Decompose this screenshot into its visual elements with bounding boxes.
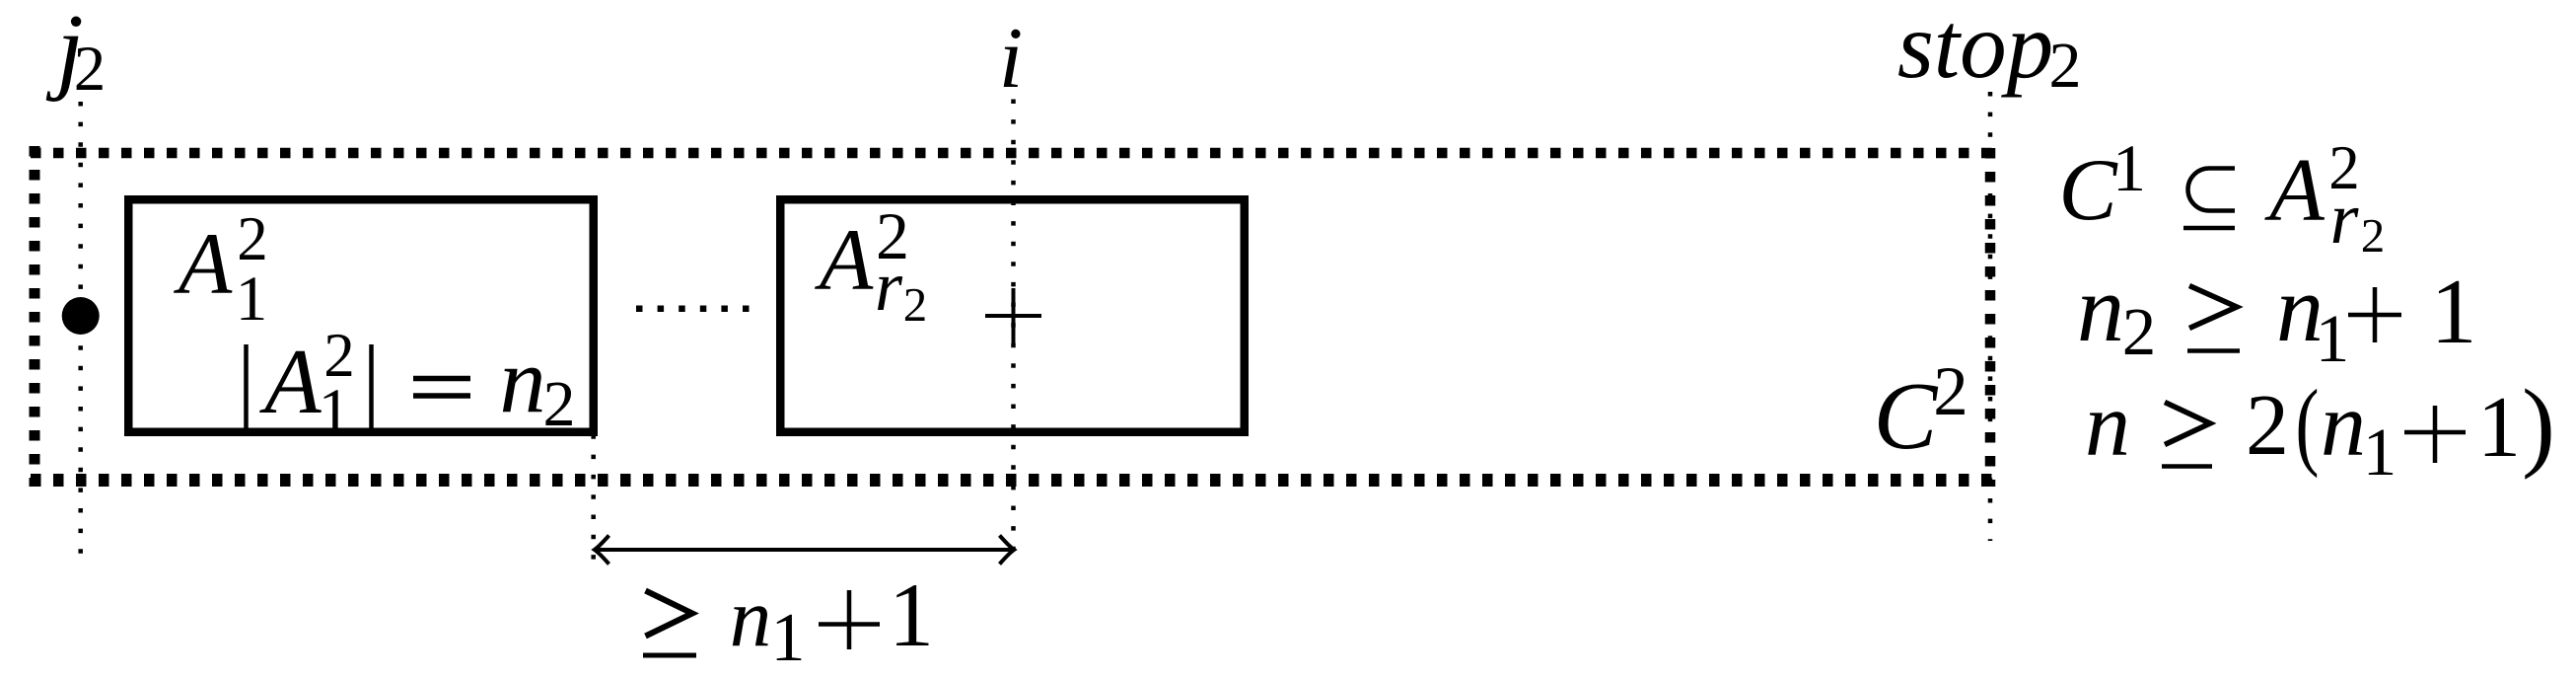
svg-text:C: C — [2058, 142, 2118, 239]
label A_r2^2 — [815, 198, 927, 332]
svg-text:): ) — [2522, 369, 2555, 481]
svg-text:1: 1 — [2477, 380, 2521, 476]
svg-text:n: n — [2085, 374, 2130, 475]
svg-text:r: r — [875, 247, 903, 326]
svg-text:1: 1 — [2431, 261, 2477, 363]
svg-text:2: 2 — [2049, 30, 2082, 102]
svg-text:2: 2 — [74, 34, 107, 105]
region C2 dotted rectangle: bottom edge — [31, 474, 1995, 487]
svg-text:2: 2 — [903, 277, 928, 332]
svg-text:(: ( — [2296, 368, 2320, 478]
box A_r2^2 (solid rectangle 2) — [780, 199, 1245, 432]
wire: vertical dotted line under i — [1011, 100, 1016, 564]
box A_1^2 (solid rectangle 1) — [128, 199, 594, 432]
label |A_1^2| = n_2 — [247, 321, 576, 447]
svg-text:r: r — [2330, 179, 2360, 260]
annotation line 1: C1 subseteq A_r2^2 — [2058, 130, 2385, 263]
node stop2 label — [1897, 0, 2082, 102]
svg-text:2: 2 — [543, 368, 576, 440]
svg-text:i: i — [999, 11, 1023, 107]
label C2 inside dotted region — [1874, 353, 1968, 469]
ellipsis dots between boxes — [636, 306, 750, 313]
svg-text:C: C — [1874, 363, 1939, 469]
svg-text:1: 1 — [2112, 130, 2146, 205]
annotation line 2: n2 >= n1+1 — [2077, 256, 2477, 376]
region C2 dotted rectangle: top edge — [31, 148, 1995, 159]
node j2 label — [45, 0, 106, 105]
wire: vertical dotted line under j2 — [78, 102, 83, 563]
marker: filled dot on j2 line — [62, 297, 100, 335]
svg-text:1: 1 — [771, 600, 806, 676]
svg-text:1: 1 — [2316, 301, 2350, 376]
svg-text:1: 1 — [319, 376, 351, 447]
svg-text:1: 1 — [2363, 415, 2397, 490]
svg-text:2: 2 — [2361, 208, 2386, 263]
svg-text:2: 2 — [2122, 294, 2157, 369]
label >= n1+1 under arrow — [643, 565, 934, 676]
dimension arrow between box1 right edge and i — [595, 536, 1014, 565]
subseteq symbol — [2188, 169, 2235, 211]
svg-text:n: n — [2321, 374, 2366, 475]
svg-text:2: 2 — [1933, 353, 1968, 430]
region C2 dotted rectangle: right edge — [1985, 148, 1996, 487]
svg-text:1: 1 — [236, 264, 268, 335]
wire: vertical dotted line under stop2 — [1988, 92, 1993, 541]
svg-text:1: 1 — [889, 565, 934, 665]
svg-text:A: A — [815, 212, 874, 309]
wire: short dotted line below box1 right edge — [591, 434, 596, 563]
svg-text:2: 2 — [2246, 378, 2289, 474]
annotation line 3: n >= 2(n1+1) — [2085, 368, 2555, 490]
region C2 dotted rectangle: left edge — [30, 146, 40, 487]
svg-text:n: n — [500, 330, 546, 432]
svg-text:A: A — [174, 216, 233, 313]
svg-text:n: n — [2077, 256, 2124, 361]
svg-text:n: n — [730, 571, 772, 664]
svg-text:stop: stop — [1897, 0, 2053, 98]
svg-text:A: A — [258, 331, 322, 433]
marker: plus at i — [985, 288, 1041, 343]
svg-text:A: A — [2264, 140, 2325, 240]
label A_1^2 — [174, 204, 268, 335]
